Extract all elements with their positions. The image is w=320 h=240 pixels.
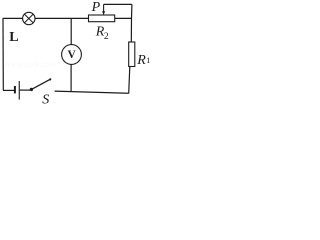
- svg-text:S: S: [42, 93, 49, 107]
- voltmeter U (V): [62, 45, 82, 65]
- wire slider P horizontal: [104, 3, 132, 5]
- battery cell: long thin positive plate: [19, 81, 20, 100]
- svg-text:P: P: [91, 0, 101, 15]
- rheostat slider arrow: [102, 4, 105, 15]
- svg-text:V: V: [68, 49, 77, 61]
- switch S pivot dot: [30, 88, 33, 91]
- wire switch to bottom-right corner: [55, 91, 129, 93]
- lamp L: [23, 12, 35, 24]
- switch S lever: [31, 79, 50, 89]
- switch S lever tip: [49, 78, 51, 80]
- battery cell: short thick negative plate: [14, 86, 16, 93]
- wire right vertical lower: [129, 67, 130, 94]
- svg-text:www.zxxk.com: www.zxxk.com: [5, 60, 56, 69]
- wire rheostat right terminal: [115, 17, 132, 19]
- svg-text:L: L: [9, 30, 18, 45]
- rheostat R2 body: [89, 15, 115, 22]
- svg-text:2: 2: [104, 32, 109, 42]
- wire right vertical upper: [130, 4, 133, 42]
- wire top-left horizontal: [3, 17, 23, 19]
- wire voltmeter top: [70, 18, 72, 44]
- svg-text:R: R: [136, 53, 146, 68]
- wire battery to switch: [20, 89, 31, 91]
- wire voltmeter bottom: [70, 64, 72, 92]
- wire lamp to rheostat: [35, 17, 88, 19]
- wire left vertical: [2, 18, 4, 90]
- wire bottom-left to battery: [3, 89, 14, 91]
- svg-text:1: 1: [146, 56, 150, 65]
- resistor R1: [129, 42, 135, 67]
